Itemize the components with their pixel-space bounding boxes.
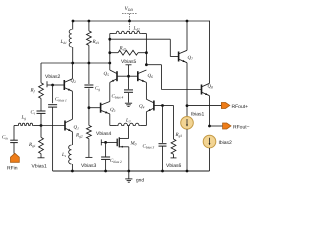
svg-text:Ibias2: Ibias2 — [219, 140, 233, 146]
svg-text:RFout+: RFout+ — [232, 104, 249, 110]
svg-text:Vbias2: Vbias2 — [45, 74, 61, 80]
svg-text:Vbias4: Vbias4 — [96, 131, 112, 137]
svg-text:gnd: gnd — [136, 178, 144, 184]
svg-text:Vbias3: Vbias3 — [81, 163, 97, 169]
svg-text:RFin: RFin — [7, 166, 18, 172]
svg-text:Vbias5: Vbias5 — [121, 59, 137, 65]
svg-text:Vbias6: Vbias6 — [166, 163, 182, 169]
svg-text:RFout−: RFout− — [233, 124, 250, 130]
svg-text:Vbias1: Vbias1 — [32, 164, 48, 170]
svg-text:Ibias1: Ibias1 — [191, 112, 205, 118]
